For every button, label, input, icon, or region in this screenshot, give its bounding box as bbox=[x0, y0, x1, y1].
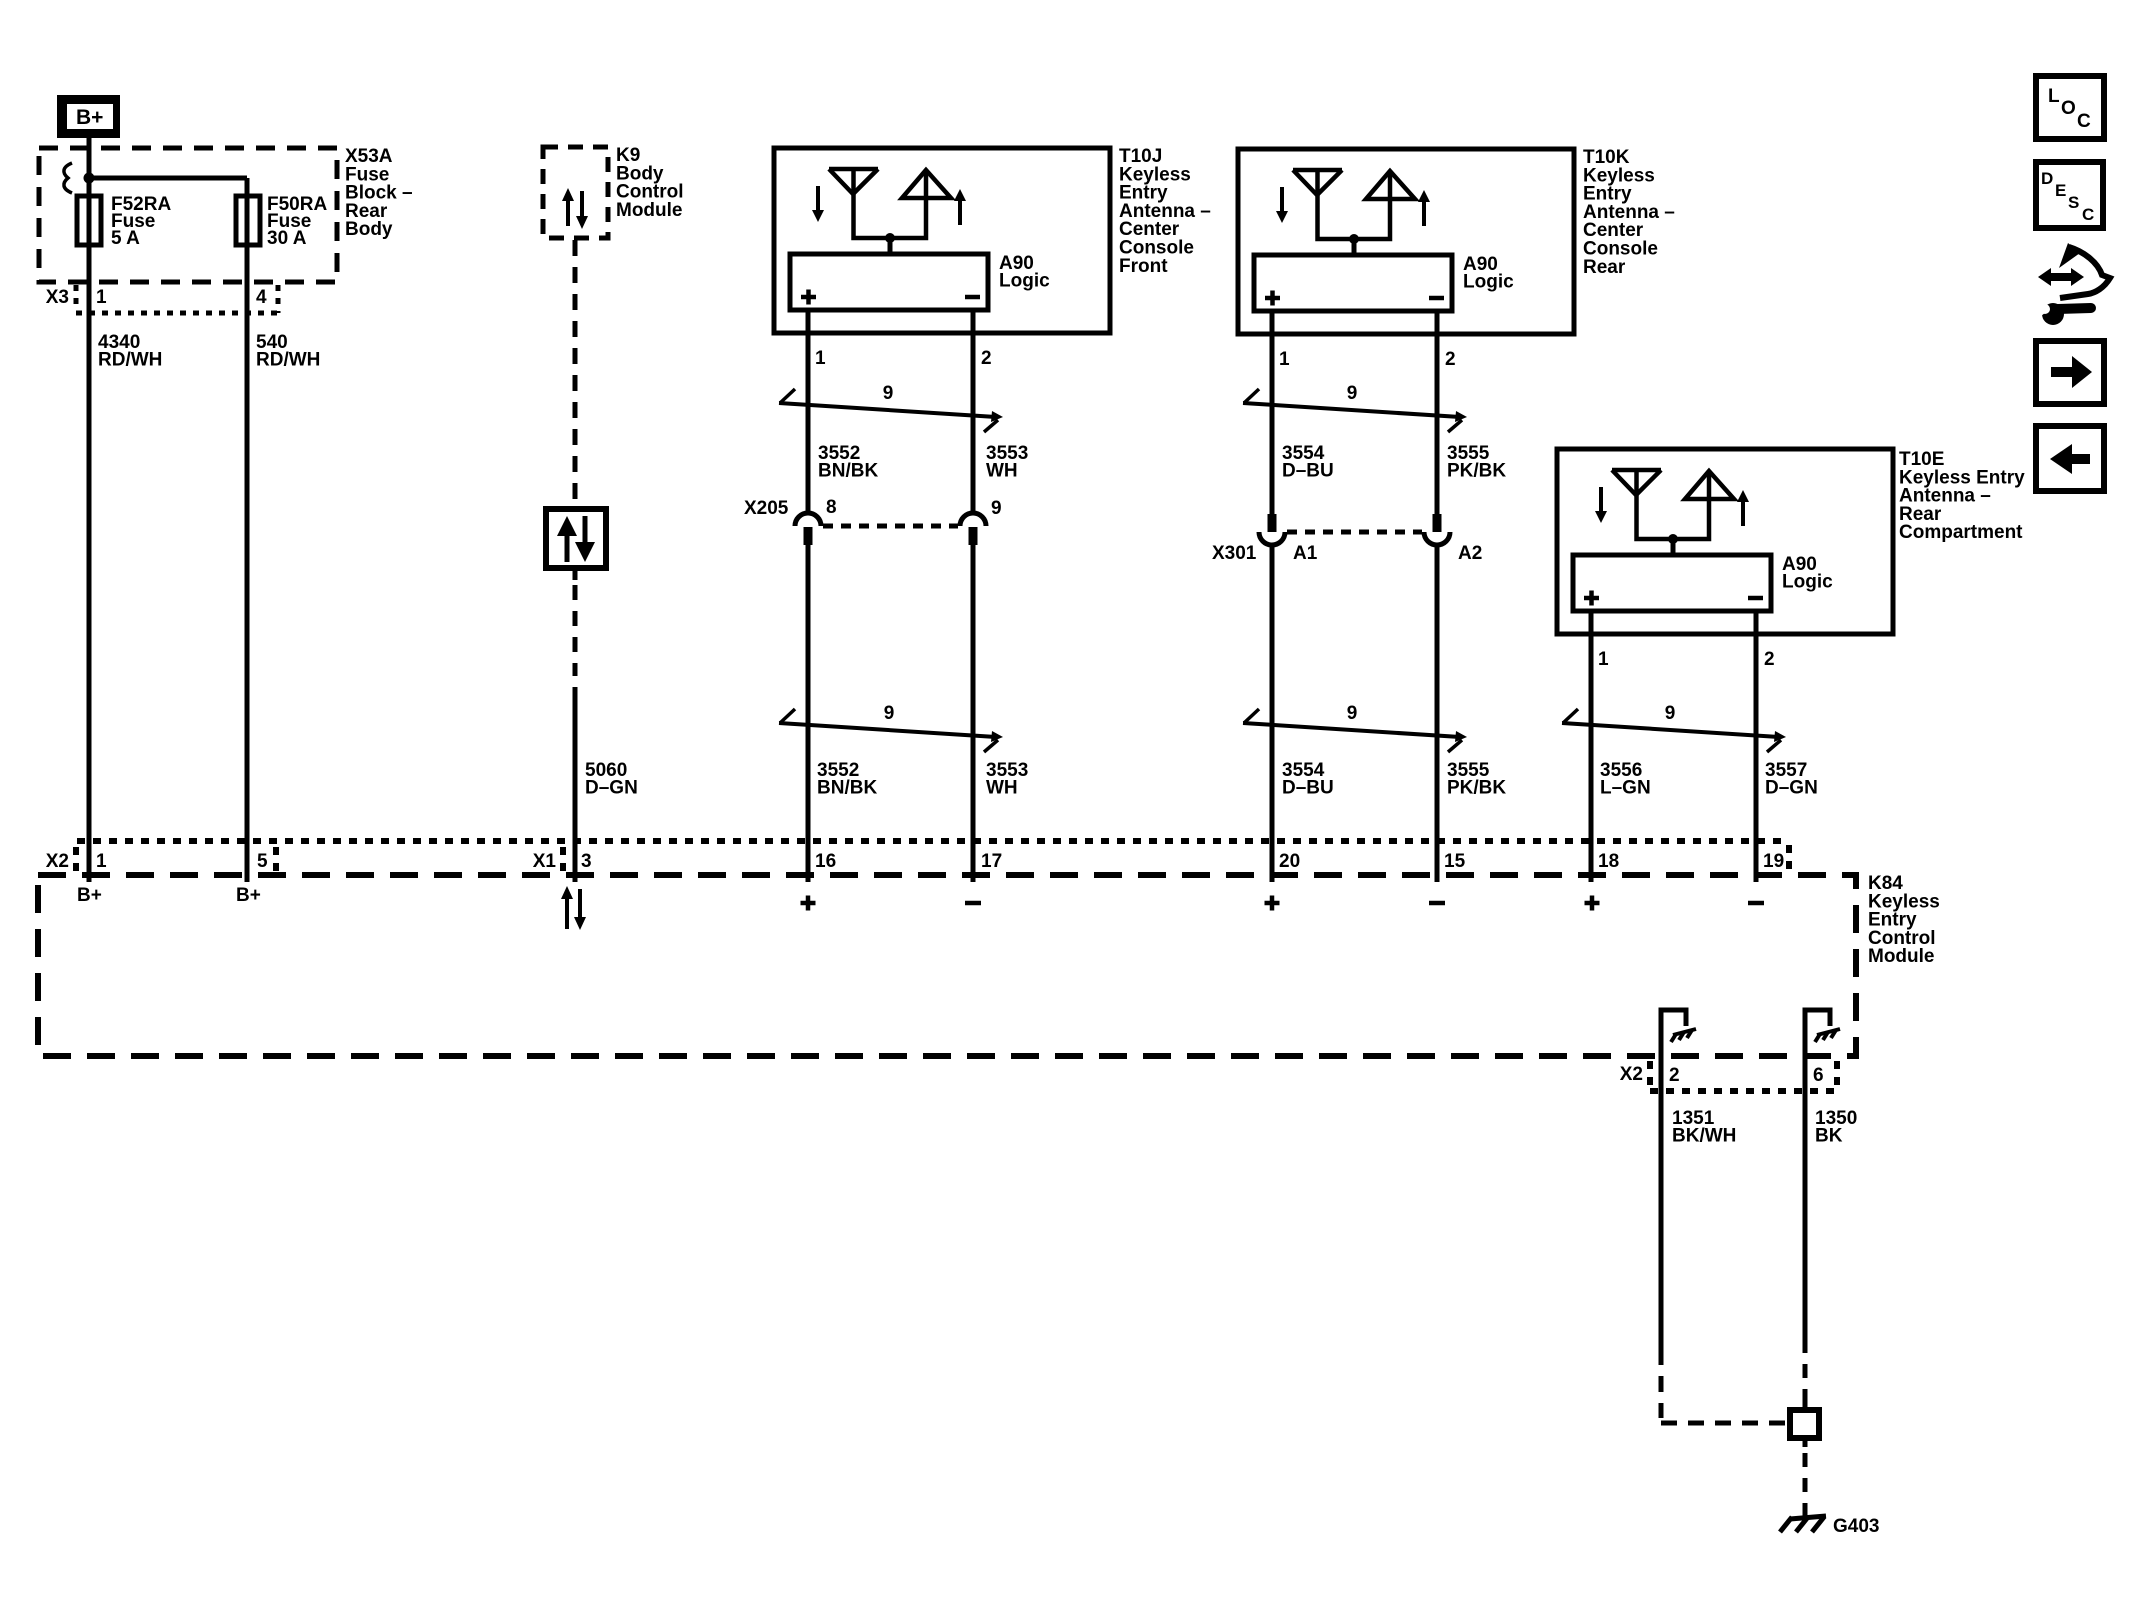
svg-text:Module: Module bbox=[616, 200, 683, 221]
svg-text:BN/BK: BN/BK bbox=[818, 460, 878, 481]
svg-text:D–BU: D–BU bbox=[1282, 777, 1334, 798]
svg-text:1: 1 bbox=[96, 851, 107, 872]
A90 logic block of T10J bbox=[790, 254, 988, 310]
wire label 540 RD/WH bbox=[256, 332, 320, 370]
K84 internal chassis ground symbol (pin 2) bbox=[1671, 1029, 1696, 1042]
minus terminal bbox=[1429, 296, 1444, 301]
svg-text:Logic: Logic bbox=[1782, 571, 1833, 592]
svg-text:3: 3 bbox=[581, 851, 592, 872]
svg-text:WH: WH bbox=[986, 777, 1018, 798]
svg-text:30 A: 30 A bbox=[267, 228, 307, 249]
wire 3552 BN/BK lower segment (X205 to K84 X1 pin 16) bbox=[806, 545, 811, 882]
wire label 3554 D-BU (lower) bbox=[1282, 760, 1334, 798]
inline connector X205 pin 8 bbox=[795, 513, 821, 545]
svg-text:4: 4 bbox=[256, 287, 267, 308]
svg-text:9: 9 bbox=[991, 498, 1002, 519]
T10E lower harness crossing slash bbox=[1562, 709, 1781, 752]
svg-text:1: 1 bbox=[1279, 349, 1290, 370]
A90 logic block of T10K bbox=[1254, 255, 1452, 311]
svg-text:D–BU: D–BU bbox=[1282, 460, 1334, 481]
svg-text:5: 5 bbox=[257, 851, 268, 872]
connector X3 (fuse block) dotted outline bbox=[76, 285, 278, 313]
antenna module T10E outer box bbox=[1557, 449, 1893, 634]
K84 connector face dotted strip bbox=[76, 841, 1789, 874]
svg-text:1: 1 bbox=[815, 348, 826, 369]
internal bus wire to F50RA bbox=[89, 176, 247, 181]
wire 3553 WH lower segment (X205 to K84 X1 pin 17) bbox=[971, 545, 976, 882]
K9 serial data down arrow bbox=[576, 191, 588, 229]
svg-text:C: C bbox=[2077, 111, 2091, 132]
T10J transmit up arrow bbox=[954, 189, 966, 225]
T10K receive antenna symbol bbox=[1293, 170, 1354, 239]
T10E pin 1 lead bbox=[1589, 611, 1594, 634]
T10J upper harness crossing slash bbox=[779, 389, 998, 432]
plus terminal bbox=[1584, 591, 1599, 606]
A90 Logic label bbox=[1463, 254, 1514, 292]
antenna module T10K outer box bbox=[1238, 149, 1574, 334]
svg-text:8: 8 bbox=[826, 497, 837, 518]
svg-text:X2: X2 bbox=[1620, 1064, 1643, 1085]
svg-text:Rear: Rear bbox=[1583, 257, 1626, 278]
module K9 label bbox=[616, 145, 684, 221]
wire label 3553 WH (lower) bbox=[986, 760, 1028, 798]
module K9 Body Control Module dashed box bbox=[543, 147, 608, 238]
svg-text:D–GN: D–GN bbox=[585, 777, 638, 798]
T10K transmit antenna symbol bbox=[1354, 171, 1415, 239]
back navigation arrow icon bbox=[2036, 426, 2104, 491]
wire 3556 L-GN (T10E pin 1 to K84 X1 pin 18) bbox=[1589, 634, 1594, 882]
plus terminal bbox=[801, 290, 816, 305]
T10J receive antenna symbol bbox=[829, 169, 890, 238]
svg-text:5 A: 5 A bbox=[111, 228, 140, 249]
repair/diagnostic icon (arrows and wrench) bbox=[2034, 243, 2110, 325]
wire label 4340 RD/WH bbox=[98, 332, 162, 370]
bus take-off squiggle bbox=[64, 163, 72, 193]
T10J receive down arrow bbox=[812, 186, 824, 222]
ground splice junction block bbox=[1790, 1410, 1819, 1438]
T10K antenna junction node bbox=[1349, 234, 1359, 244]
wire 4340 RD/WH (B+ through F52RA fuse down to K84 X2 pin 1) bbox=[87, 138, 92, 882]
T10J transmit antenna symbol bbox=[890, 170, 951, 238]
T10E receive down arrow bbox=[1595, 487, 1607, 523]
svg-text:BN/BK: BN/BK bbox=[817, 777, 877, 798]
fuse F52RA 5 A bbox=[77, 196, 101, 245]
svg-text:18: 18 bbox=[1598, 851, 1619, 872]
minus terminal bbox=[1748, 596, 1763, 601]
fuse block X53A label bbox=[345, 146, 413, 240]
T10K component label bbox=[1583, 147, 1675, 278]
wire label 3556 L-GN bbox=[1600, 760, 1651, 798]
wire 540 RD/WH (bus through F50RA down to K84 X2 pin 5) bbox=[245, 178, 250, 882]
svg-text:RD/WH: RD/WH bbox=[256, 349, 320, 370]
svg-text:B+: B+ bbox=[77, 885, 102, 906]
svg-text:9: 9 bbox=[883, 383, 894, 404]
K84 antenna + terminal (pin 20) bbox=[1265, 896, 1280, 911]
svg-text:16: 16 bbox=[815, 851, 836, 872]
svg-text:X1: X1 bbox=[533, 851, 557, 872]
module K84 label bbox=[1868, 873, 1940, 967]
svg-text:X205: X205 bbox=[744, 498, 789, 519]
svg-text:Module: Module bbox=[1868, 946, 1935, 967]
svg-text:PK/BK: PK/BK bbox=[1447, 777, 1506, 798]
svg-text:9: 9 bbox=[1347, 383, 1358, 404]
inline connector X301 pin A1 bbox=[1259, 514, 1285, 545]
T10K upper harness crossing slash bbox=[1243, 389, 1462, 432]
inline connector X205 pin 9 bbox=[960, 513, 986, 545]
svg-text:2: 2 bbox=[1445, 349, 1456, 370]
svg-text:WH: WH bbox=[986, 460, 1018, 481]
svg-text:PK/BK: PK/BK bbox=[1447, 460, 1506, 481]
T10K lead to A90 logic bbox=[1352, 239, 1357, 255]
wire label 3553 WH (upper) bbox=[986, 443, 1028, 481]
T10E transmit antenna symbol bbox=[1673, 471, 1734, 539]
svg-text:G403: G403 bbox=[1833, 1516, 1879, 1537]
T10K transmit up arrow bbox=[1418, 190, 1430, 226]
wire 3555 PK/BK upper segment (T10K pin 2 to X301 pin A2) bbox=[1435, 334, 1440, 514]
T10J pin 1 lead bbox=[806, 310, 811, 333]
inline connector X301 pin A2 bbox=[1424, 514, 1450, 545]
T10K pin 1 lead bbox=[1270, 311, 1275, 334]
T10E lead to A90 logic bbox=[1671, 539, 1676, 555]
svg-text:X2: X2 bbox=[46, 851, 69, 872]
K84 antenna - terminal (pin 15) bbox=[1429, 901, 1445, 906]
T10K receive down arrow bbox=[1276, 187, 1288, 223]
wire 3554 D-BU upper segment (T10K pin 1 to X301 pin A1) bbox=[1270, 334, 1275, 514]
K84 serial data up arrow bbox=[561, 886, 573, 929]
K84 antenna + terminal (pin 16) bbox=[801, 896, 816, 911]
A90 Logic label bbox=[999, 253, 1050, 291]
K84 internal chassis ground symbol (pin 6) bbox=[1815, 1029, 1840, 1042]
wire label 3552 BN/BK (upper) bbox=[818, 443, 878, 481]
T10E antenna junction node bbox=[1668, 534, 1678, 544]
module K84 Keyless Entry Control Module dashed outline bbox=[38, 875, 1856, 1056]
svg-text:BK: BK bbox=[1815, 1125, 1843, 1146]
svg-text:2: 2 bbox=[1669, 1065, 1680, 1086]
svg-text:B+: B+ bbox=[236, 885, 261, 906]
svg-text:X3: X3 bbox=[46, 287, 69, 308]
K84 antenna - terminal (pin 19) bbox=[1748, 901, 1764, 906]
fuse F50RA 30 A bbox=[236, 196, 260, 245]
T10K pin 2 lead bbox=[1435, 311, 1440, 334]
T10E component label bbox=[1899, 449, 2025, 543]
T10J antenna junction node bbox=[885, 233, 895, 243]
K84 ground connector X2 dotted outline bbox=[1650, 1061, 1837, 1091]
forward navigation arrow icon bbox=[2036, 341, 2104, 404]
T10J component label bbox=[1119, 146, 1211, 277]
wire 3557 D-GN (T10E pin 2 to K84 X1 pin 19) bbox=[1754, 634, 1759, 882]
plus terminal bbox=[1265, 291, 1280, 306]
wire 1351 BK/WH dashed run to splice bbox=[1661, 1349, 1787, 1423]
DESC navigation icon bbox=[2036, 162, 2103, 228]
svg-text:E: E bbox=[2055, 181, 2066, 200]
svg-text:1: 1 bbox=[96, 287, 107, 308]
wire label 1351 BK/WH bbox=[1672, 1108, 1736, 1146]
wire 5060 D-GN (K9 to K84 X1 pin 3), dashed inside harness bbox=[573, 240, 578, 509]
wire 3552 BN/BK upper segment (T10J pin 1 to X205 pin 8) bbox=[806, 333, 811, 513]
svg-text:B+: B+ bbox=[76, 106, 103, 129]
svg-text:Body: Body bbox=[345, 219, 393, 240]
T10K lower harness crossing slash bbox=[1243, 709, 1462, 752]
svg-text:19: 19 bbox=[1763, 851, 1784, 872]
svg-text:BK/WH: BK/WH bbox=[1672, 1125, 1736, 1146]
svg-text:2: 2 bbox=[1764, 649, 1775, 670]
svg-text:9: 9 bbox=[1347, 703, 1358, 724]
K84 internal ground lead (pin 2 circuit) bbox=[1661, 1010, 1686, 1349]
svg-text:O: O bbox=[2061, 98, 2076, 119]
T10J pin 2 lead bbox=[971, 310, 976, 333]
fuse block X53A dashed outline bbox=[39, 148, 337, 282]
svg-text:L–GN: L–GN bbox=[1600, 777, 1651, 798]
svg-text:L: L bbox=[2048, 86, 2060, 107]
svg-text:A2: A2 bbox=[1458, 543, 1482, 564]
battery feed B+ symbol bbox=[57, 95, 120, 138]
svg-text:C: C bbox=[2082, 205, 2094, 224]
svg-text:RD/WH: RD/WH bbox=[98, 349, 162, 370]
wire label 3555 PK/BK (lower) bbox=[1447, 760, 1506, 798]
antenna module T10J outer box bbox=[774, 148, 1110, 333]
svg-text:D: D bbox=[2041, 169, 2053, 188]
dashed lead from splice to G403 bbox=[1803, 1453, 1808, 1517]
svg-text:Logic: Logic bbox=[1463, 271, 1514, 292]
K9 serial data up arrow bbox=[562, 188, 574, 226]
K84 serial data down arrow bbox=[574, 889, 586, 930]
svg-text:X301: X301 bbox=[1212, 543, 1257, 564]
wire label 1350 BK bbox=[1815, 1108, 1857, 1146]
svg-text:20: 20 bbox=[1279, 851, 1300, 872]
svg-text:17: 17 bbox=[981, 851, 1002, 872]
wire label 3557 D-GN bbox=[1765, 760, 1818, 798]
svg-text:Compartment: Compartment bbox=[1899, 522, 2023, 543]
wire label 3554 D-BU (upper) bbox=[1282, 443, 1334, 481]
T10J lead to A90 logic bbox=[888, 238, 893, 254]
svg-text:9: 9 bbox=[884, 703, 895, 724]
K84 antenna - terminal (pin 17) bbox=[965, 901, 981, 906]
X205 connector jumper dashed bbox=[823, 524, 958, 529]
svg-text:A1: A1 bbox=[1293, 543, 1318, 564]
junction node (fuse block internal bus) bbox=[84, 173, 95, 184]
svg-text:Front: Front bbox=[1119, 256, 1168, 277]
wire 3555 PK/BK lower segment (X301 to K84 X1 pin 15) bbox=[1435, 544, 1440, 882]
T10E transmit up arrow bbox=[1737, 490, 1749, 526]
T10E receive antenna symbol bbox=[1612, 470, 1673, 539]
wire label 3555 PK/BK (upper) bbox=[1447, 443, 1506, 481]
T10J lower harness crossing slash bbox=[779, 709, 998, 752]
svg-text:D–GN: D–GN bbox=[1765, 777, 1818, 798]
A90 Logic label bbox=[1782, 554, 1833, 592]
wire 3553 WH upper segment (T10J pin 2 to X205 pin 9) bbox=[971, 333, 976, 513]
svg-text:2: 2 bbox=[981, 348, 992, 369]
X301 connector jumper dashed bbox=[1287, 530, 1422, 535]
svg-text:S: S bbox=[2068, 193, 2079, 212]
inline serial data symbol box on wire 5060 bbox=[546, 509, 606, 568]
wire label 5060 D-GN bbox=[585, 760, 638, 798]
ground G403 chassis symbol bbox=[1780, 1516, 1826, 1532]
T10E pin 2 lead bbox=[1754, 611, 1759, 634]
wire 3554 D-BU lower segment (X301 to K84 X1 pin 20) bbox=[1270, 544, 1275, 882]
svg-text:9: 9 bbox=[1665, 703, 1676, 724]
svg-text:6: 6 bbox=[1813, 1065, 1824, 1086]
A90 logic block of T10E bbox=[1573, 555, 1771, 611]
wire 1350 BK dashed run to splice bbox=[1803, 1339, 1808, 1404]
LOC navigation icon bbox=[2036, 76, 2104, 139]
K84 internal ground lead (pin 6 circuit) bbox=[1805, 1010, 1830, 1339]
minus terminal bbox=[965, 295, 980, 300]
svg-text:Logic: Logic bbox=[999, 270, 1050, 291]
svg-text:15: 15 bbox=[1444, 851, 1466, 872]
svg-text:1: 1 bbox=[1598, 649, 1609, 670]
wire label 3552 BN/BK (lower) bbox=[817, 760, 877, 798]
K84 antenna + terminal (pin 18) bbox=[1585, 896, 1600, 911]
